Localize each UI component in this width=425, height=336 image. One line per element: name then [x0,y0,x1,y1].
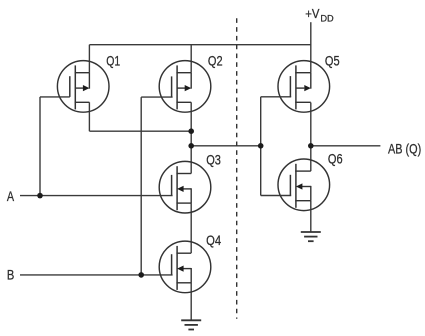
svg-text:DD: DD [320,14,334,24]
wire: Q5 gate lead [261,96,292,98]
wire: input A line [20,195,173,197]
wire: Q1 source down [88,102,90,131]
wire: inverter gate tie vertical [260,97,262,196]
wire: NAND output rail (Q1 to node) [89,130,191,132]
wire: A riser to Q1 gate [39,97,41,196]
wire: input B line [20,274,173,276]
wire: Q6 gate lead [261,195,292,197]
junction A to Q1/Q3 gates [37,193,43,199]
svg-text:AB (Q): AB (Q) [388,141,421,157]
svg-text:Q5: Q5 [325,52,340,68]
svg-text:Q6: Q6 [328,150,343,166]
transistor Q5 (PMOS) [278,61,330,113]
wire: +VDD supply rail (top) [89,44,310,46]
svg-text:+V: +V [305,6,319,21]
wire: Q2 gate lead [141,96,172,98]
wire: Q4 source to ground [190,283,192,321]
svg-text:Q3: Q3 [206,151,221,167]
transistor Q2 (PMOS) [159,61,211,113]
transistor Q1 (PMOS) [57,61,109,113]
wire: Q1 gate lead [40,96,70,98]
svg-text:Q2: Q2 [208,53,223,69]
wire: node vertical Q2 source through to Q3 drain [190,102,192,173]
junction output node [308,143,314,149]
svg-text:A: A [7,188,15,204]
ground G2 (below Q6) [301,232,321,241]
svg-text:Q1: Q1 [106,53,120,69]
wire: Q6 source to ground [310,201,312,232]
dashed separator between NAND and inverter [236,18,238,318]
svg-text:B: B [7,267,14,283]
wire: Q1 drain to rail [88,45,90,73]
wire: Q3 source to Q4 drain [190,203,192,253]
junction B to Q2/Q4 gates [138,272,144,278]
wire: Q5 source down to output node [310,103,312,146]
wire: VDD stub down to Q5 [310,22,312,72]
junction NAND node (Q1/Q2 sources) [188,128,194,134]
transistor Q6 (NMOS) [278,159,330,211]
svg-text:Q4: Q4 [206,232,221,248]
wire: NAND output branch to inverter gates [191,145,261,147]
ground G1 (below Q4) [181,320,201,329]
wire: Q2 drain to rail [190,45,192,73]
transistor Q4 (NMOS) [159,241,211,293]
wire: B riser to Q2 gate [140,97,142,275]
wire: Q6 drain up to output node [310,146,312,171]
junction inverter gate tie [258,143,264,149]
junction NAND output branch [188,143,194,149]
wire: output line AB(Q) [311,145,381,147]
transistor Q3 (NMOS) [159,161,211,213]
